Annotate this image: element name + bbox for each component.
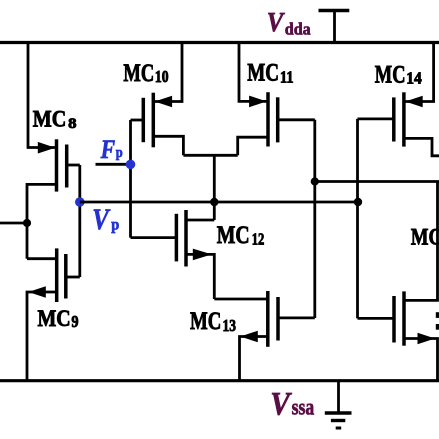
wire MC10 drain from rail	[153, 43, 182, 102]
wire Fp stub	[96, 163, 131, 166]
transistor MC13 channel	[266, 291, 270, 347]
node Vp bus right end	[354, 198, 362, 206]
svg-text:V: V	[270, 386, 292, 422]
wire Vdda supply stem	[333, 11, 336, 43]
transistor MC12 channel	[184, 210, 188, 267]
wire MC8 drain from rail	[28, 43, 57, 148]
Vssa bottom rail	[0, 379, 439, 382]
transistor MC8 gate plate	[65, 145, 69, 188]
MC12 label	[217, 222, 264, 249]
wire MC13 gate lead	[278, 316, 315, 319]
wire Fp vertical MC10 gate to MC12 gate	[129, 120, 132, 238]
svg-text:MC: MC	[217, 222, 250, 249]
transistor MC14 gate plate	[392, 97, 396, 141]
wire MC15 drain to mid line	[404, 182, 438, 301]
svg-text:14: 14	[406, 69, 422, 88]
svg-text:ssa: ssa	[292, 394, 315, 419]
ground symbol stem	[337, 381, 340, 413]
svg-text:dda: dda	[285, 20, 311, 39]
wire MC9 source to Vssa rail	[27, 292, 57, 381]
Vp label	[92, 203, 119, 236]
Vssa label	[270, 386, 314, 422]
transistor MC10 gate plate	[142, 98, 146, 142]
svg-text:p: p	[116, 145, 123, 161]
Vdda label	[267, 7, 311, 39]
transistor MC13 arrow	[240, 331, 257, 343]
transistor MC11 channel	[266, 92, 270, 146]
transistor MC9 channel	[55, 248, 59, 302]
transistor MC14 channel	[402, 92, 406, 146]
wire Vdda top rail	[0, 41, 439, 44]
MC9 label	[38, 306, 79, 331]
transistor MC15 channel	[402, 291, 406, 345]
svg-text:10: 10	[155, 67, 169, 86]
wire MC11 gate vertical to MC13 gate	[313, 120, 316, 318]
ground symbol bar 2	[331, 419, 345, 422]
transistor MC9 gate plate	[64, 254, 68, 299]
transistor MC15 arrow	[418, 333, 436, 345]
transistor MC15 gate plate	[392, 296, 396, 343]
transistor MC10 arrow	[155, 96, 173, 108]
wire MC11 source staircase	[238, 137, 268, 155]
svg-text:V: V	[92, 203, 111, 236]
wire MC14 drain from rail	[404, 43, 434, 102]
wire MC15 source to Vssa rail	[404, 339, 438, 381]
wire MC12 drain lead	[186, 219, 214, 222]
wire MC13 source to Vssa rail	[240, 337, 268, 381]
Fp label	[100, 135, 123, 164]
node on mid line	[311, 177, 319, 185]
wire MC10-MC11 source bus	[183, 154, 237, 157]
wire MC14 gate lead	[358, 118, 394, 121]
MC14 label	[375, 62, 422, 89]
MC13 label	[190, 308, 236, 335]
svg-text:MC: MC	[247, 60, 279, 87]
node MC8-MC9 junction	[23, 219, 31, 227]
svg-text:9: 9	[71, 312, 78, 331]
Vdda supply bar	[319, 9, 350, 12]
node Vp	[75, 197, 85, 207]
wire MC15 gate lead	[358, 317, 395, 320]
node center tap on Vp bus	[210, 198, 218, 206]
transistor MC12 gate plate	[175, 214, 179, 262]
wire MC10 source staircase	[153, 136, 183, 155]
ground symbol bar 1	[325, 411, 352, 415]
svg-text:V: V	[267, 7, 285, 37]
wire mid line to right edge	[315, 180, 439, 183]
wire center tap down to Vp bus and MC12 drain	[213, 155, 216, 220]
transistor MC8 channel	[55, 139, 59, 191]
wire Vp vertical MC8 gate to MC9 gate	[78, 165, 81, 277]
right edge cut mark upper	[436, 312, 439, 318]
wire MC12 gate lead	[131, 236, 177, 239]
wire MC8 gate lead to Vp	[67, 164, 80, 167]
svg-text:13: 13	[223, 316, 237, 335]
svg-text:MC: MC	[123, 60, 154, 87]
transistor MC9 arrow	[28, 286, 46, 298]
wire MC8 source down	[27, 184, 57, 258]
MC11 label	[247, 60, 293, 87]
wire Vp bus	[80, 201, 358, 204]
MC10 label	[123, 60, 168, 87]
MC8 label	[33, 107, 77, 132]
svg-text:MC: MC	[411, 224, 439, 249]
transistor MC13 gate plate	[276, 297, 280, 341]
transistor MC12 arrow	[193, 249, 212, 261]
wire MC11 drain from rail	[239, 43, 268, 102]
transistor MC14 arrow	[405, 96, 423, 108]
svg-text:8: 8	[68, 116, 76, 132]
svg-text:p: p	[111, 217, 119, 234]
svg-text:12: 12	[252, 230, 265, 249]
transistor MC11 arrow	[249, 96, 267, 108]
svg-text:MC: MC	[375, 62, 406, 89]
svg-text:11: 11	[280, 67, 294, 86]
transistor MC8 arrow	[38, 142, 56, 154]
node Fp	[126, 160, 136, 170]
svg-text:MC: MC	[38, 306, 71, 331]
wire MC13 drain lead	[214, 298, 267, 301]
wire MC9 drain lead	[27, 257, 57, 260]
svg-text:MC: MC	[33, 107, 67, 132]
transistor MC10 channel	[152, 93, 156, 148]
ground symbol bar 3	[336, 427, 342, 430]
wire MC9 gate lead to Vp	[66, 276, 80, 279]
wire MC11 gate lead	[278, 118, 315, 121]
wire MC14 source to right edge	[404, 138, 439, 155]
wire input stub left edge	[0, 222, 27, 225]
right edge cut mark lower	[436, 324, 439, 330]
wire MC12 source to MC13 drain	[186, 254, 214, 299]
wire MC10 gate lead	[131, 119, 144, 122]
MC15 label partial	[411, 224, 439, 249]
transistor MC11 gate plate	[276, 97, 280, 142]
wire MC14 gate vertical to MC15 gate	[356, 119, 359, 319]
svg-text:F: F	[100, 135, 115, 164]
svg-text:MC: MC	[190, 308, 221, 335]
